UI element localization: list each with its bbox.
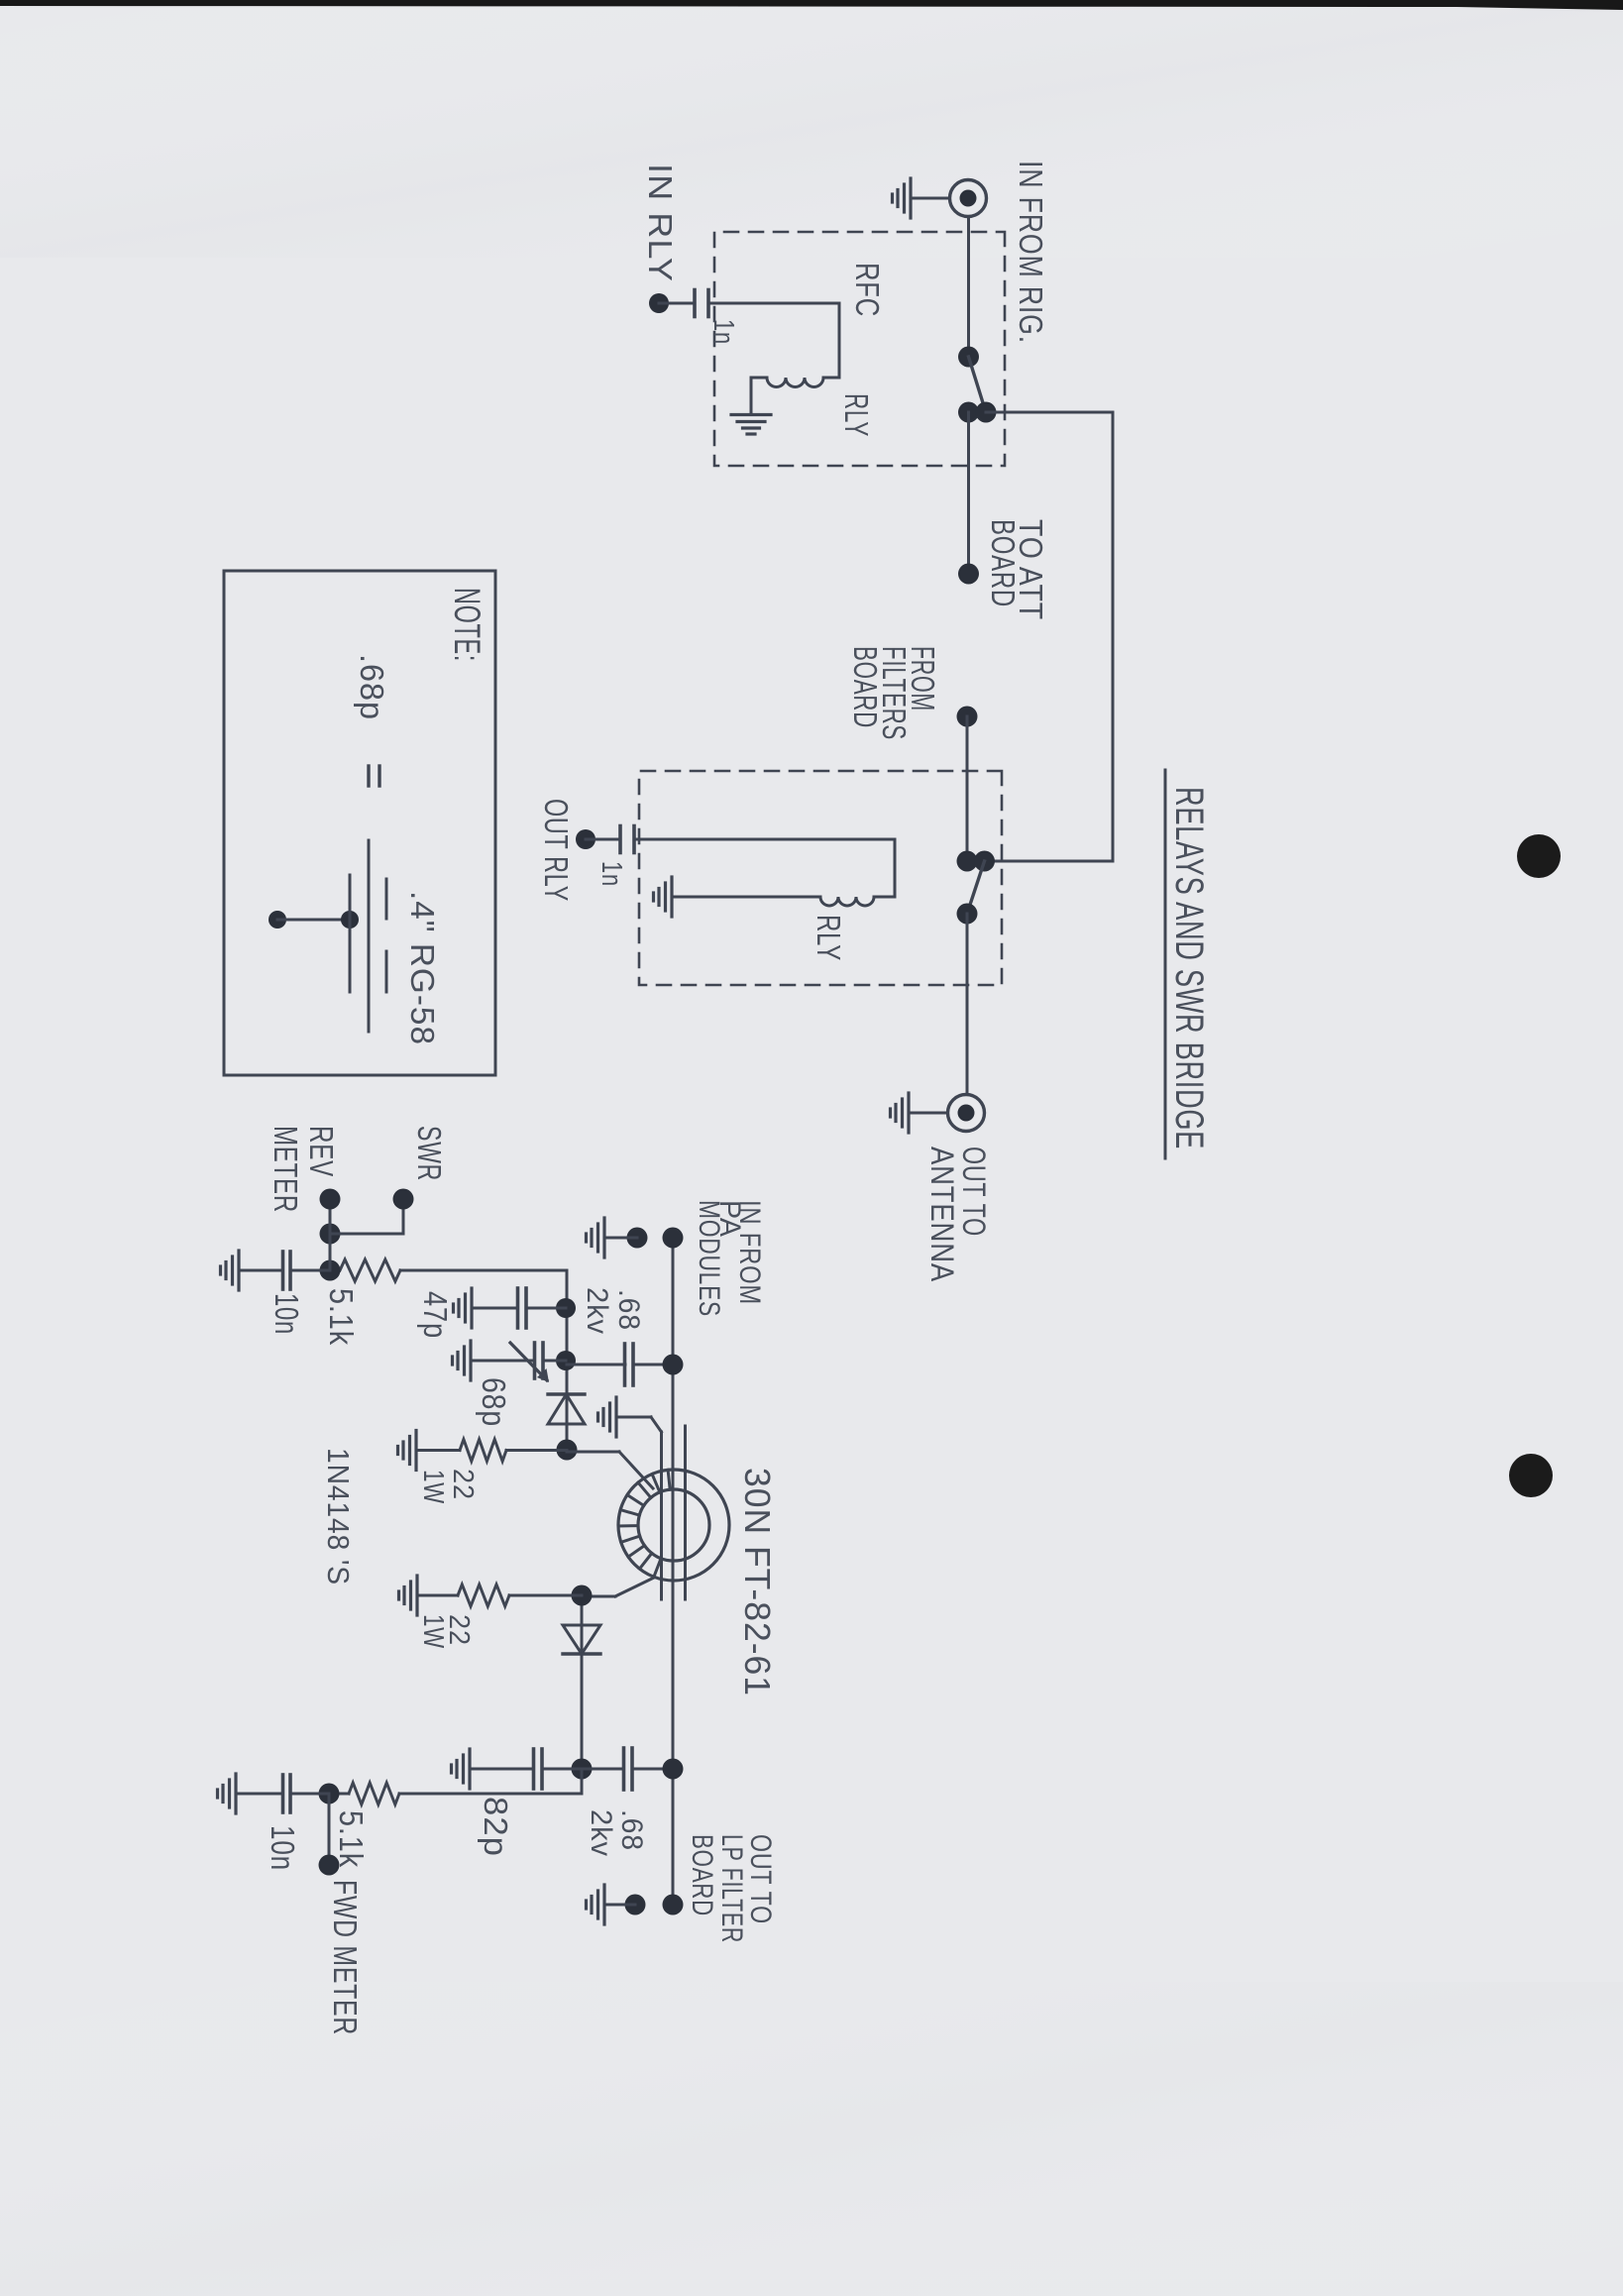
svg-text:FWD METER: FWD METER — [327, 1880, 364, 2035]
node dot fwd meter — [319, 1784, 340, 1804]
coax stub symbol — [269, 911, 286, 929]
svg-text:.68: .68 — [615, 1809, 648, 1851]
resistor 22 1W (rev) — [460, 1440, 506, 1462]
svg-text:1N4148 'S: 1N4148 'S — [321, 1448, 356, 1585]
svg-text:2kv: 2kv — [581, 1287, 613, 1335]
ground at RFC coil — [731, 413, 771, 416]
svg-text:5.1k: 5.1k — [333, 1810, 370, 1868]
equals sign — [378, 766, 380, 786]
ground at 47p — [470, 1288, 473, 1328]
diode D2 1N4148 (fwd) — [563, 1625, 600, 1654]
junction dot 68p — [556, 1351, 576, 1370]
relay switch 2 contact dots — [957, 851, 978, 872]
svg-text:47p: 47p — [417, 1291, 454, 1339]
inductor RLY coil 2 — [820, 897, 874, 906]
svg-text:82p: 82p — [478, 1797, 514, 1857]
title underline — [1164, 770, 1167, 1158]
NOTE box frame — [224, 571, 495, 1075]
relay switch 2 pole dot — [957, 904, 978, 925]
svg-text:RLY: RLY — [838, 393, 875, 437]
resistor 5.1k (rev) — [340, 1259, 400, 1281]
relay 2 dashed box — [639, 771, 1002, 985]
dot main line left end — [663, 1228, 684, 1249]
wire NC contact to switch 2 (long link) — [986, 411, 1113, 414]
capacitor .68 2kv (fwd side) — [582, 1768, 622, 1771]
wire J1 to relay switch 1 — [967, 217, 970, 358]
svg-text:1W: 1W — [417, 1614, 449, 1649]
ground at RLY coil 2 — [670, 877, 673, 917]
capacitor 82p — [542, 1768, 582, 1771]
wire node to 22 ohm (rev) — [506, 1449, 567, 1452]
ground stub right of main line — [625, 1895, 646, 1915]
svg-text:IN RLY: IN RLY — [642, 164, 679, 282]
main line IN FROM PA MODULES to LP FILTER — [672, 1238, 675, 1905]
node wire (rev detector) — [566, 1270, 569, 1450]
wire fwd node to 5.1k — [581, 1769, 584, 1794]
resistor 5.1k (fwd) — [349, 1783, 399, 1804]
ground at 10n (fwd) — [234, 1774, 237, 1813]
stub wire TO ATT BOARD — [967, 412, 970, 574]
wire coil to ground — [750, 378, 753, 414]
wire toroid to fwd node — [615, 1578, 654, 1596]
svg-text:NOTE:: NOTE: — [447, 588, 487, 662]
wire FWD METER stub — [328, 1794, 331, 1865]
dot .68 2kv fwd on main line — [663, 1759, 684, 1780]
svg-text:MODULES: MODULES — [693, 1200, 725, 1317]
capacitor 47p — [526, 1307, 566, 1310]
dot .68 2kv on main line — [663, 1355, 684, 1375]
svg-text:RLY: RLY — [811, 915, 847, 961]
svg-text:RELAYS AND SWR BRIDGE: RELAYS AND SWR BRIDGE — [1167, 787, 1211, 1149]
node dot FROM FILTERS BOARD — [957, 707, 978, 727]
wire cap to RFC coil — [838, 303, 841, 378]
capacitor 68p trimmer — [543, 1360, 566, 1363]
capacitor 10n (rev) — [290, 1269, 330, 1272]
trimmer arrow — [510, 1343, 547, 1380]
svg-text:68p: 68p — [476, 1377, 512, 1427]
svg-text:ANTENNA: ANTENNA — [924, 1147, 960, 1282]
toroid winding line lower — [660, 1432, 663, 1599]
ground at 68p — [469, 1341, 472, 1380]
node dot TO ATT BOARD — [958, 564, 979, 585]
toroid winding hatching — [668, 1470, 670, 1489]
resistor 22 1W (fwd) — [509, 1594, 582, 1597]
junction dot rev/swr — [320, 1224, 341, 1245]
ground stub left of main line — [627, 1228, 648, 1249]
svg-text:OUT RLY: OUT RLY — [538, 799, 575, 902]
ground at 22 ohm (rev) — [414, 1431, 417, 1471]
punch hole upper — [1517, 834, 1561, 878]
svg-text:OUT TO: OUT TO — [956, 1147, 992, 1237]
coax connector J1 (IN FROM RIG) — [950, 180, 987, 217]
svg-text:10n: 10n — [265, 1825, 301, 1871]
dot REV METER — [320, 1189, 341, 1210]
dot FWD METER — [319, 1855, 340, 1876]
toroid winding line upper — [684, 1426, 687, 1599]
wire node to 5.1k — [400, 1269, 567, 1272]
dot SWR — [393, 1189, 414, 1210]
ground at 22 ohm (fwd) — [415, 1576, 418, 1615]
svg-text:.4" RG-58: .4" RG-58 — [404, 891, 441, 1045]
wire switch 2 to J2 — [966, 914, 969, 1094]
node dot OUT RLY — [576, 829, 595, 849]
node dot fwd/toroid — [572, 1585, 593, 1606]
relay switch 2 arm — [967, 861, 985, 914]
svg-text:1n: 1n — [595, 861, 627, 887]
svg-text:BOARD: BOARD — [686, 1834, 718, 1916]
svg-text:.68: .68 — [612, 1289, 645, 1331]
svg-text:22: 22 — [447, 1469, 479, 1500]
ground at J2 — [909, 1112, 948, 1115]
svg-text:10n: 10n — [269, 1293, 305, 1335]
svg-text:REV: REV — [303, 1126, 340, 1177]
relay 1 dashed box — [714, 232, 1005, 466]
inductor RFC coil — [767, 378, 823, 387]
toroid ground — [614, 1397, 617, 1437]
toroid core 30N FT-82-61 — [618, 1470, 729, 1581]
ground at J1 — [911, 197, 950, 200]
node wire (fwd detector) — [581, 1595, 584, 1769]
wire 22 ohm to ground (rev) — [416, 1449, 460, 1452]
svg-text:2kv: 2kv — [585, 1809, 617, 1857]
relay switch 1 contact dots — [958, 402, 979, 423]
svg-text:IN FROM RIG.: IN FROM RIG. — [1013, 161, 1049, 344]
node dot IN RLY — [649, 293, 669, 313]
capacitor 10n (fwd) — [290, 1793, 329, 1796]
relay switch 1 pole dot — [958, 347, 979, 368]
svg-text:SWR: SWR — [411, 1126, 448, 1181]
svg-text:1n: 1n — [707, 319, 739, 345]
junction dot 47p — [556, 1298, 576, 1318]
svg-text:BOARD: BOARD — [985, 519, 1022, 607]
node dot rev meter — [320, 1260, 341, 1281]
dot main line right end — [663, 1895, 684, 1915]
svg-text:.68p: .68p — [354, 654, 390, 720]
wire cap to RLY coil 2 — [894, 839, 897, 897]
capacitor 1n (relay 2) — [586, 838, 618, 841]
relay switch 1 arm — [969, 357, 986, 409]
svg-text:30N FT-82-61: 30N FT-82-61 — [737, 1468, 778, 1696]
wire node to toroid winding (rev) — [567, 1451, 619, 1454]
coax connector J2 (OUT TO ANTENNA) — [948, 1095, 985, 1132]
capacitor .68 2kv (rev side) — [567, 1364, 625, 1367]
diode D1 1N4148 (rev) — [548, 1394, 585, 1424]
wire filters stub — [966, 716, 969, 861]
svg-text:LP FILTER: LP FILTER — [715, 1834, 748, 1943]
wire 5.1k to node (fwd) — [329, 1793, 349, 1796]
capacitor 1n (relay 1) — [659, 302, 693, 305]
wire to REV METER dot — [329, 1199, 332, 1270]
svg-text:BOARD: BOARD — [847, 646, 884, 728]
svg-text:RFC: RFC — [849, 263, 886, 317]
svg-text:METER: METER — [268, 1126, 304, 1213]
node dot 82p — [572, 1759, 593, 1780]
svg-text:1W: 1W — [417, 1470, 449, 1504]
punch hole lower — [1509, 1454, 1553, 1497]
ground at 82p — [468, 1749, 471, 1789]
ground at 10n (rev) — [237, 1251, 240, 1290]
svg-text:5.1k: 5.1k — [323, 1288, 360, 1346]
scanner black top edge — [0, 0, 1623, 10]
wire to SWR dot — [330, 1233, 402, 1236]
node dot diode/toroid (rev) — [557, 1440, 578, 1461]
